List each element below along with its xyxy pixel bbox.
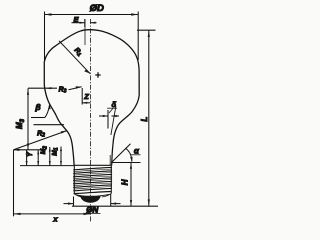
delta dim: [99, 115, 108, 117]
svg-text:M3: M3: [15, 118, 26, 129]
bulb outline: [44, 30, 139, 166]
dim L line: [148, 30, 150, 206]
svg-text:R3: R3: [59, 87, 67, 95]
dim D extension lines: [44, 12, 46, 63]
delta leader: [109, 109, 113, 114]
left reference vertical: [13, 150, 15, 217]
dim M3: [27, 88, 29, 149]
dim L reference line top: [137, 29, 156, 31]
dim Y: [26, 150, 28, 166]
svg-text:α: α: [134, 147, 140, 156]
thread minor lines: [73, 169, 112, 189]
width reference line: [28, 87, 57, 89]
lamp neck inner line right: [111, 106, 116, 135]
dim M2: [37, 150, 39, 166]
screw base threads: [73, 167, 112, 193]
angle alpha slope line: [112, 144, 131, 163]
svg-text:x: x: [52, 215, 58, 224]
screw base body: [74, 165, 111, 193]
svg-text:H: H: [121, 179, 130, 185]
svg-text:R2: R2: [37, 130, 45, 138]
dim M1: [49, 147, 51, 166]
light center line: [84, 19, 86, 45]
light center cross: [95, 72, 100, 77]
angle alpha arc: [125, 148, 132, 161]
dim H: [130, 163, 132, 207]
dim Z tick: [81, 88, 83, 105]
reference line y150: [14, 149, 47, 151]
dim N extension lines: [73, 197, 75, 207]
radius R2: [14, 131, 68, 150]
bottom reference line: [72, 205, 158, 207]
svg-text:Y: Y: [27, 151, 34, 157]
centerline axis: [90, 19, 92, 222]
dim D line: [45, 14, 139, 16]
svg-text:ØD: ØD: [90, 3, 104, 14]
dim X: [14, 213, 91, 215]
svg-text:M2: M2: [40, 146, 48, 154]
angle alpha reference line: [111, 162, 141, 164]
delta tick: [107, 110, 109, 129]
svg-text:β: β: [34, 102, 40, 112]
radius R1: [59, 41, 90, 74]
svg-text:M1: M1: [51, 147, 59, 155]
dim line 4: [60, 147, 62, 166]
tangent reference line: [34, 124, 65, 126]
svg-text:δ: δ: [112, 100, 117, 109]
base contact dome: [80, 195, 101, 203]
neck inner wall right: [109, 155, 111, 165]
svg-text:L: L: [140, 117, 149, 122]
base skirt: [74, 193, 112, 197]
dim N line: [64, 203, 74, 205]
svg-text:Z: Z: [83, 92, 89, 101]
bottom reference line left: [20, 165, 75, 167]
